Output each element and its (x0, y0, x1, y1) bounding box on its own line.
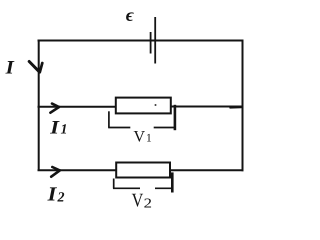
wire bottom side right segment (170, 169, 244, 171)
wire left side (38, 40, 40, 172)
label V2 (132, 194, 151, 208)
current arrow I (diagonal) (29, 62, 42, 73)
wire branch 1 left segment (38, 106, 116, 108)
label I (5, 61, 14, 73)
resistor R1 (116, 98, 171, 114)
resistor R2 (116, 163, 170, 178)
label epsilon (EMF) (126, 12, 134, 21)
label I1 (50, 121, 66, 133)
wire branch 1 right segment (171, 107, 244, 108)
voltmeter V2 bracket (113, 172, 172, 192)
wire bottom side left segment (38, 169, 117, 171)
current arrow I2 (51, 167, 60, 177)
voltmeter V1 bracket (108, 105, 175, 130)
current arrow I1 (50, 104, 59, 113)
dot inside resistor R1 (155, 104, 157, 106)
label V1 (134, 131, 151, 142)
wire top side (38, 40, 244, 42)
battery plate long (right) (154, 17, 156, 64)
label I2 (47, 187, 64, 201)
battery plate short (left) (150, 32, 152, 54)
wire right side (242, 40, 244, 172)
